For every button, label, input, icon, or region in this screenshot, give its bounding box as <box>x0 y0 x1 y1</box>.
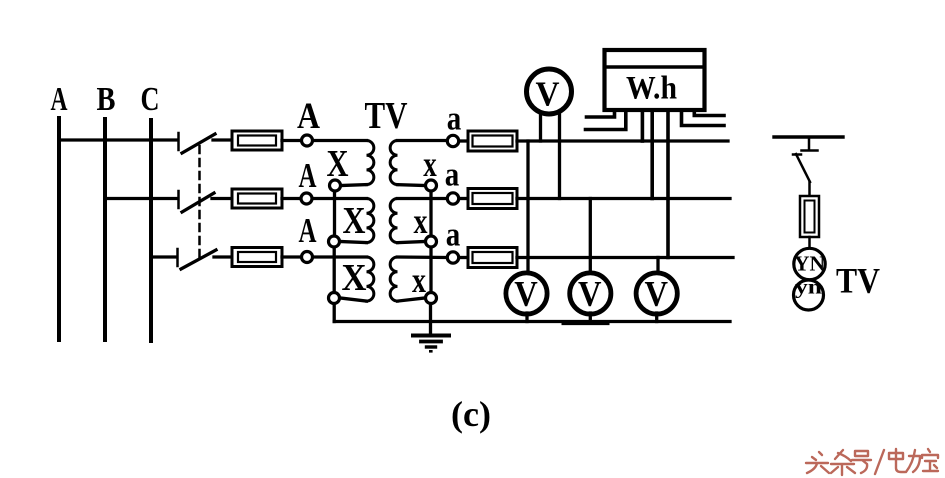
terminal A2 <box>301 193 312 204</box>
single-line TV primary circle YN <box>794 248 825 279</box>
TV secondary winding 2 <box>390 199 397 243</box>
svg-text:YN: YN <box>794 252 825 276</box>
svg-text:V: V <box>578 274 602 314</box>
svg-text:TV: TV <box>365 95 408 137</box>
fuse FU3 primary <box>232 248 282 267</box>
svg-text:(c): (c) <box>451 394 491 434</box>
wire secondary3 to a3 <box>398 255 447 259</box>
wire phase a2 line <box>517 197 730 200</box>
svg-text:X: X <box>342 257 367 299</box>
svg-text:V: V <box>644 274 668 314</box>
svg-text:a: a <box>445 157 460 194</box>
voltmeter V1 bottom lead <box>525 313 528 322</box>
glyph li <box>906 450 920 472</box>
TV secondary winding 1 <box>390 141 397 185</box>
disconnect switch QS pole 2 fixed contact <box>177 191 180 208</box>
wire phase a1 line <box>517 139 728 142</box>
svg-text:A: A <box>297 96 320 137</box>
wire A3 to primary winding 3 <box>313 255 367 258</box>
svg-text:x: x <box>423 144 437 184</box>
x neutral link x1-x2 <box>429 192 432 235</box>
single-line disconnect blade <box>793 153 801 156</box>
voltmeter V3 top lead <box>656 258 659 274</box>
disconnect switch QS pole 3 fixed contact <box>176 249 179 266</box>
fuse FU1 primary <box>232 131 282 150</box>
svg-text:A: A <box>51 81 68 118</box>
voltmeter V1 <box>506 273 547 314</box>
wire blade2 to fuse2 <box>212 197 232 200</box>
wire phase B tap from bus B <box>105 197 177 200</box>
terminal x2 <box>426 236 437 247</box>
svg-text:x: x <box>412 260 426 300</box>
busbar C <box>149 120 153 341</box>
W.h current terminal 1 (left) <box>587 110 615 117</box>
TV secondary winding 3 <box>390 257 397 301</box>
svg-text:a: a <box>447 101 462 138</box>
x neutral to ground <box>429 304 432 334</box>
wire fuse1 to terminal A1 <box>282 139 301 142</box>
svg-text:TV: TV <box>836 261 880 301</box>
voltmeter V2 bottom lead <box>589 313 592 322</box>
voltmeter V2 <box>570 273 611 314</box>
svg-text:yn: yn <box>795 277 822 299</box>
disconnect switch QS pole 3 blade <box>181 250 216 269</box>
wire A1 to primary winding 1 <box>313 139 367 142</box>
svg-text:X: X <box>327 143 349 185</box>
wire a1 to fuse <box>460 139 468 142</box>
W.h voltage lead to phase a2 <box>650 110 654 199</box>
voltmeter V1 top lead <box>526 141 529 274</box>
disconnect switch QS gang link (dashed) <box>198 146 201 262</box>
terminal a1 <box>447 135 458 146</box>
wire secondary1 to a1 <box>398 139 447 142</box>
voltmeter V3 bottom lead <box>655 313 658 322</box>
terminal X3 <box>329 293 340 304</box>
W.h current terminal 4 (right) <box>694 110 724 116</box>
svg-text:a: a <box>446 217 461 254</box>
wire phase A tap from bus A <box>59 138 177 141</box>
terminal a3 <box>447 252 458 263</box>
TV primary winding 3 <box>367 257 374 301</box>
glyph dian <box>889 449 905 472</box>
X neutral link X3 to rail <box>333 304 336 321</box>
svg-text:x: x <box>414 201 428 241</box>
wire a2 to fuse <box>460 197 468 200</box>
glyph tiao <box>831 450 855 475</box>
glyph hao <box>852 451 871 473</box>
busbar B <box>103 119 107 340</box>
svg-text:V: V <box>536 76 560 114</box>
fuse FU a1 <box>468 131 517 151</box>
voltmeter V top right lead <box>558 110 561 199</box>
wire phase a3 line <box>517 256 733 259</box>
TV primary winding 1 <box>367 141 374 185</box>
svg-text:X: X <box>343 200 366 242</box>
glyph bao <box>922 449 938 471</box>
terminal A3 <box>302 252 313 263</box>
voltmeter V2 top lead <box>589 199 592 274</box>
wire A2 to primary winding 2 <box>313 197 367 200</box>
W.h voltage lead to phase a1 <box>641 110 645 141</box>
terminal X1 <box>330 180 341 191</box>
energy meter W.h box <box>605 50 705 110</box>
svg-text:V: V <box>514 274 538 314</box>
wire secondary3 to x3 <box>398 298 425 301</box>
svg-text:A: A <box>299 211 318 250</box>
energy meter W.h top band line <box>607 65 702 69</box>
terminal X2 <box>329 236 340 247</box>
disconnect switch QS pole 2 blade <box>182 193 214 212</box>
terminal x1 <box>426 180 437 191</box>
wire winding1 to X1 <box>342 183 367 187</box>
wire secondary2 to a2 <box>398 197 447 200</box>
wire fuse to TV <box>808 237 811 247</box>
wire secondary2 to x2 <box>398 242 425 243</box>
W.h current terminal 3 (right) <box>682 110 725 126</box>
wire winding3 to X3 <box>341 298 367 301</box>
wire fuse2 to terminal A2 <box>282 197 300 200</box>
W.h voltage lead to phase a3 <box>666 110 670 258</box>
wire blade1 to fuse1 <box>213 138 232 141</box>
terminal A1 <box>302 135 313 146</box>
voltmeter V top left lead <box>539 112 542 141</box>
slash <box>875 450 884 474</box>
voltmeter V3 <box>636 273 677 314</box>
fuse FU a3 <box>468 248 517 268</box>
fuse FU a2 <box>468 189 517 209</box>
busbar A <box>57 118 61 340</box>
wire blade3 to fuse3 <box>214 255 232 258</box>
single-line diagram: busbar <box>774 135 843 138</box>
single-line disconnect fixed contact <box>808 137 811 149</box>
terminal x3 <box>426 293 437 304</box>
wire winding2 to X2 <box>341 242 367 243</box>
svg-text:A: A <box>299 156 318 195</box>
rail thick segment <box>563 322 608 325</box>
terminal a2 <box>447 193 458 204</box>
wire blade to fuse <box>808 182 811 196</box>
neutral rail <box>334 320 730 323</box>
wire a3 to fuse <box>460 256 468 259</box>
svg-text:B: B <box>97 81 116 118</box>
wire secondary1 to x1 <box>398 183 425 187</box>
watermark 头条号 / 电力宝 (drawn strokes) <box>806 449 938 475</box>
single-line fuse <box>800 196 819 237</box>
X neutral link X2-X3 <box>333 248 336 292</box>
wire fuse3 to terminal A3 <box>282 255 301 258</box>
voltmeter V top <box>527 69 572 114</box>
svg-text:C: C <box>141 81 160 118</box>
disconnect switch QS pole 1 fixed contact <box>177 133 180 150</box>
W.h current terminal 2 (left) <box>586 110 626 130</box>
svg-text:W.h: W.h <box>626 71 677 107</box>
ground <box>413 334 449 338</box>
TV primary winding 2 <box>367 199 374 243</box>
wire phase C tap from bus C <box>151 255 176 258</box>
single-line TV secondary circle yn <box>794 280 824 310</box>
disconnect switch QS pole 1 blade <box>182 134 215 153</box>
glyph tou <box>806 452 829 473</box>
fuse FU2 primary <box>232 189 282 208</box>
X neutral link X1-X2 <box>333 192 336 235</box>
x neutral link x2-x3 <box>429 248 432 292</box>
